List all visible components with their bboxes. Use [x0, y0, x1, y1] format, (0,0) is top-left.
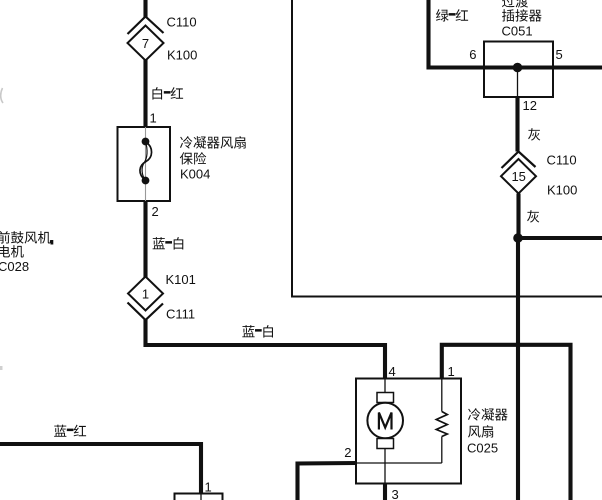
svg-text:1: 1 [150, 111, 157, 126]
connector C110 symbol 2 (chevron) [502, 152, 536, 169]
pin 1 of K004 [150, 111, 157, 126]
wire color label lan-bai horizontal [242, 325, 273, 337]
label C111 [166, 307, 195, 322]
wire color label lan-bai (blue-white) [153, 237, 184, 249]
label C110 [167, 15, 197, 30]
svg-text:7: 7 [142, 36, 149, 51]
wire color label lan-hong (blue-red) [54, 425, 86, 437]
wire W11 to right edge [518, 236, 602, 240]
svg-text:K100: K100 [167, 48, 197, 63]
wire W2 white-red [143, 60, 147, 127]
fuse-box location K100 diamond 15 [501, 159, 536, 194]
svg-text:C028: C028 [0, 259, 29, 274]
fuse-box location K101 diamond 1 [128, 277, 163, 311]
wire W13 fan pin 1 net [442, 345, 571, 500]
label K100 second [547, 183, 577, 198]
junction node dot [514, 234, 523, 243]
wire W12 down to fan [516, 238, 520, 500]
wire color label hui 2 (grey) [527, 210, 539, 222]
pin 1 of bottom-left connector [205, 480, 212, 495]
wire color label hui (grey) [528, 128, 540, 140]
wire W6 blue-red [0, 444, 201, 494]
svg-text:4: 4 [389, 364, 396, 379]
pin 3 of C025 [392, 487, 399, 500]
svg-text:6: 6 [469, 47, 476, 62]
label C051 [502, 24, 533, 39]
fuse K004 box [118, 127, 171, 201]
svg-text:2: 2 [344, 445, 351, 460]
svg-text:1: 1 [142, 286, 149, 301]
svg-text:1: 1 [205, 480, 212, 495]
wire W1 power feed top [143, 0, 147, 17]
wire W10 grey [516, 194, 520, 239]
wire W9 grey [515, 97, 519, 152]
wire W7 green-red feed [429, 0, 602, 68]
svg-text:15: 15 [511, 169, 525, 184]
resistor R1 in C025 [436, 379, 447, 464]
label C028 [0, 259, 29, 274]
wire W15 pin 3 down [383, 484, 387, 500]
label front blower motor line1 [0, 231, 53, 244]
svg-text:C110: C110 [167, 15, 197, 30]
pin 12 of C051 [523, 98, 537, 113]
left cut-off glyph artifact [1, 88, 3, 103]
pin 6 of C051 [469, 47, 476, 62]
svg-text:K004: K004 [180, 167, 210, 182]
wire W3 blue-white [143, 201, 147, 277]
svg-text:C025: C025 [467, 441, 498, 456]
junction node in C051 [513, 63, 522, 97]
transition connector C051 box [484, 42, 553, 98]
pin 5 of C051 [556, 47, 563, 62]
label condenser fan line2 [468, 425, 493, 438]
wire resistor to pin 2 [356, 462, 442, 464]
label C110 second [547, 153, 577, 168]
wire color label bai-hong (white-red) [152, 87, 183, 99]
label front blower motor line2 [0, 245, 24, 257]
svg-text:5: 5 [556, 47, 563, 62]
svg-text:C111: C111 [166, 307, 195, 322]
pin 4 of C025 [389, 364, 396, 379]
motor M1 of condenser fan [367, 379, 403, 449]
condenser fan C025 box [356, 379, 461, 484]
bottom-left connector box [175, 494, 223, 500]
label condenser fan line1 [468, 408, 508, 420]
label K101 [166, 272, 196, 287]
wire color label lv-hong (green-red) [436, 9, 468, 21]
svg-text:K101: K101 [166, 272, 196, 287]
label guodu (cut off) [502, 0, 528, 8]
svg-text:2: 2 [152, 204, 159, 219]
svg-text:1: 1 [448, 364, 455, 379]
module box outline [292, 0, 602, 297]
pin 1 of C025 [448, 364, 455, 379]
label condenser-fan fuse line1 [180, 136, 246, 149]
pin 2 of C025 [344, 445, 351, 460]
fuse element inside K004 [140, 127, 152, 201]
connector C111 symbol (chevron) [128, 303, 164, 321]
label K004 [180, 167, 210, 182]
svg-text:3: 3 [392, 487, 399, 500]
svg-text:C110: C110 [547, 153, 577, 168]
wire W16 pin 2 net [298, 463, 357, 500]
label condenser-fan fuse line2 [180, 152, 206, 165]
label K100 [167, 48, 197, 63]
label chajieqi [502, 9, 542, 21]
svg-text:12: 12 [523, 98, 537, 113]
pin 2 of K004 [152, 204, 159, 219]
svg-text:K100: K100 [547, 183, 577, 198]
connector C110 symbol (chevron) [128, 17, 164, 35]
fuse-box location K100 diamond 7 [128, 26, 164, 61]
left cut-off artifact 2 [0, 366, 3, 370]
svg-text:C051: C051 [502, 24, 533, 39]
wire motor to pin 3 [384, 449, 386, 484]
label C025 [467, 441, 498, 456]
wire W4 blue-white to fan pin 4 [146, 319, 386, 379]
